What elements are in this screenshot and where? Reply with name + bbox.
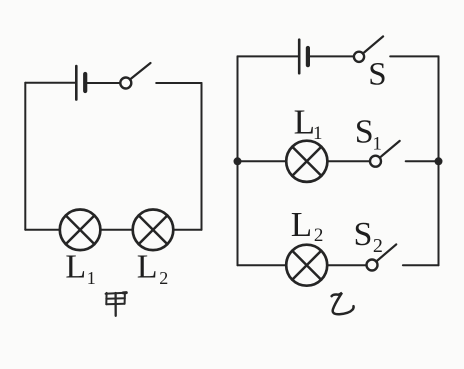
svg-text:S: S xyxy=(368,56,386,92)
wire: bottom branch left segment xyxy=(238,264,287,266)
wire: switch S to top-right corner xyxy=(390,55,438,57)
lamp L2 (right circuit bottom branch) xyxy=(286,245,327,286)
lamp L1 (left circuit) xyxy=(60,210,101,251)
lamp L2 (left circuit) xyxy=(133,210,174,251)
svg-text:1: 1 xyxy=(313,123,323,144)
svg-text:1: 1 xyxy=(372,133,382,154)
wire: left circuit right vertical xyxy=(201,83,203,230)
svg-text:S: S xyxy=(354,216,373,253)
wire: right circuit top-left horizontal xyxy=(238,55,300,57)
wire: switch S2 to bottom-right corner xyxy=(403,264,439,266)
wire: right circuit right vertical xyxy=(438,56,440,265)
battery B2 (right circuit) xyxy=(299,40,308,73)
label S1 (middle branch switch) xyxy=(355,114,382,155)
switch S1 (left circuit knife switch) xyxy=(120,63,150,89)
lamp L1 (right circuit middle branch) xyxy=(286,141,327,182)
wire: right circuit left vertical xyxy=(237,56,239,265)
label L2 (left circuit) xyxy=(137,249,168,289)
svg-text:L: L xyxy=(294,102,315,141)
wire: bottom right segment xyxy=(173,229,201,231)
wire: between lamps xyxy=(100,229,132,231)
wire: left circuit left vertical xyxy=(24,83,26,230)
label L1 (right circuit middle branch) xyxy=(294,102,323,144)
svg-text:2: 2 xyxy=(159,268,168,288)
wire: bottom left segment xyxy=(25,229,60,231)
node: right junction dot xyxy=(435,157,443,165)
wire: lamp L2 to switch S2 xyxy=(327,264,366,266)
node: left junction dot xyxy=(234,157,242,165)
wire: switch S1 to right vertical xyxy=(406,160,439,162)
svg-text:2: 2 xyxy=(373,235,383,257)
label L2 (right circuit bottom branch) xyxy=(291,205,324,246)
wire: switch to top-right corner xyxy=(156,82,201,84)
wire: battery to switch xyxy=(85,82,120,84)
label 甲 (circuit A, hand-drawn) xyxy=(106,293,127,316)
svg-text:L: L xyxy=(65,249,86,286)
switch S1 (middle branch) xyxy=(370,141,400,167)
svg-text:S: S xyxy=(355,114,374,151)
label L1 (left circuit) xyxy=(65,249,95,289)
battery B1 (left circuit) xyxy=(76,66,85,100)
wire: battery to switch S xyxy=(308,55,354,57)
label S2 (bottom branch switch) xyxy=(354,216,383,257)
svg-text:2: 2 xyxy=(314,225,324,246)
svg-text:L: L xyxy=(291,205,312,244)
wire: middle branch left segment xyxy=(238,160,287,162)
wire: lamp L1 to switch S1 xyxy=(327,160,370,162)
wire: left circuit top-left horizontal xyxy=(25,82,76,84)
switch S (right circuit main switch) xyxy=(354,36,383,62)
label 乙 (circuit B, hand-drawn) xyxy=(332,293,354,314)
svg-text:L: L xyxy=(137,249,158,286)
switch S2 (bottom branch) xyxy=(367,244,397,270)
svg-text:1: 1 xyxy=(87,268,96,288)
